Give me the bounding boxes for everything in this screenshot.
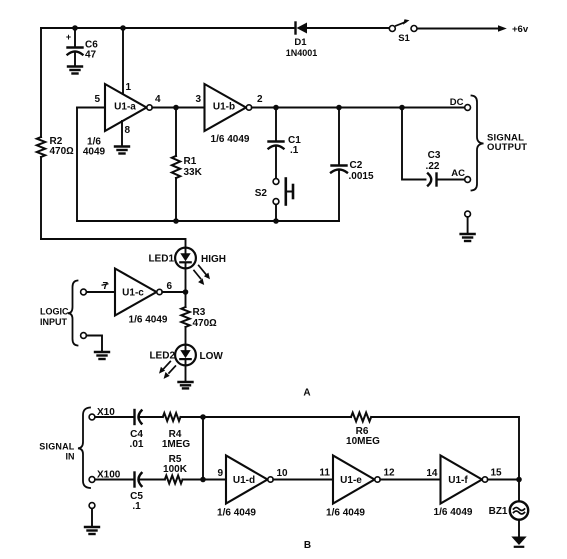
- svg-text:4: 4: [155, 94, 161, 105]
- terminal X10: [89, 414, 95, 420]
- svg-text:INPUT: INPUT: [40, 317, 68, 327]
- terminal ground input: [89, 503, 95, 509]
- wire R4 to R6: [181, 416, 352, 418]
- svg-text:.1: .1: [290, 145, 299, 156]
- svg-text:X10: X10: [97, 407, 115, 418]
- op-amp U1-d (inverter): [226, 456, 268, 504]
- buzzer BZ1: [510, 501, 528, 519]
- wire U1-f out to BZ1 node: [488, 479, 519, 481]
- node junction X10 row: [200, 414, 206, 420]
- resistor R2: [37, 137, 45, 157]
- svg-text:B: B: [304, 540, 311, 551]
- svg-text:+: +: [66, 32, 71, 42]
- wire R6 to right vertical: [371, 417, 519, 500]
- svg-text:2: 2: [257, 94, 263, 105]
- svg-text:1/6 4049: 1/6 4049: [217, 508, 256, 519]
- terminal ground output: [465, 211, 471, 217]
- svg-text:4049: 4049: [83, 147, 106, 158]
- svg-text:U1-d: U1-d: [233, 475, 255, 486]
- svg-text:1/6 4049: 1/6 4049: [326, 508, 365, 519]
- svg-text:S2: S2: [255, 188, 268, 199]
- svg-text:AC: AC: [451, 168, 465, 179]
- node junction pin1: [120, 25, 126, 31]
- op-amp U1-e (inverter): [333, 456, 375, 504]
- wire U1-e out to U1-f: [380, 479, 440, 481]
- op-amp U1-a (inverter): [105, 84, 147, 131]
- node bubble U1-c: [157, 289, 162, 294]
- svg-text:SIGNAL: SIGNAL: [39, 442, 75, 452]
- TEXT-MIDDLE: [40, 254, 311, 399]
- svg-text:1/6 4049: 1/6 4049: [211, 134, 250, 145]
- ground logic input: [95, 352, 109, 359]
- svg-text:5: 5: [94, 94, 100, 105]
- node bubble U1-f: [482, 477, 487, 482]
- LED LED1: [175, 248, 210, 292]
- wire U1-d out to U1-e: [273, 479, 333, 481]
- wire input1 to U1-c: [87, 291, 116, 293]
- node junction R1 bottom: [173, 218, 179, 224]
- wire X10 to C4: [95, 416, 134, 418]
- wire rail diode to S1: [307, 27, 390, 29]
- wire feedback left vertical: [76, 108, 78, 222]
- svg-text:470Ω: 470Ω: [193, 318, 218, 329]
- TEXT-TOP: [50, 24, 529, 199]
- svg-text:DC: DC: [450, 97, 464, 108]
- svg-text:10: 10: [277, 468, 289, 479]
- brace logic input: [68, 281, 78, 346]
- wire U1-c out: [162, 291, 185, 293]
- svg-text:1: 1: [126, 82, 132, 93]
- svg-text:LED1: LED1: [148, 254, 174, 265]
- svg-text:BZ1: BZ1: [489, 506, 508, 517]
- svg-text:U1-e: U1-e: [340, 475, 362, 486]
- svg-text:100K: 100K: [163, 464, 188, 475]
- resistor R3: [181, 307, 189, 327]
- wire top rail left: [41, 27, 294, 29]
- svg-text:6: 6: [167, 281, 173, 292]
- wire bottom outer to LED1: [41, 239, 186, 248]
- svg-text:1/6 4049: 1/6 4049: [129, 315, 168, 326]
- switch S2: [273, 179, 293, 222]
- terminal logic input 2: [81, 333, 87, 339]
- node bubble U1-e: [375, 477, 380, 482]
- node junction S2 bottom: [273, 218, 279, 224]
- svg-text:+6v: +6v: [512, 24, 529, 35]
- ground U1-a pin8: [115, 147, 129, 154]
- svg-text:R3: R3: [193, 307, 206, 318]
- svg-text:D1: D1: [294, 37, 307, 48]
- svg-text:A: A: [303, 388, 310, 399]
- capacitor C4: [135, 410, 163, 424]
- wire R1 verticals: [175, 108, 177, 222]
- wire pin 5 input: [77, 107, 105, 109]
- svg-text:11: 11: [319, 468, 330, 479]
- svg-text:14: 14: [426, 468, 438, 479]
- op-amp U1-f (inverter): [441, 456, 483, 504]
- svg-text:470Ω: 470Ω: [50, 146, 75, 157]
- wire ground input drop: [91, 509, 93, 527]
- svg-text:3: 3: [195, 94, 201, 105]
- wire AC branch: [402, 108, 426, 180]
- SECTION B: [78, 408, 528, 547]
- svg-text:33K: 33K: [184, 167, 203, 178]
- ground LED2: [179, 382, 193, 388]
- brace signal in: [78, 408, 90, 489]
- svg-text:LOW: LOW: [200, 351, 224, 362]
- node junction DC-AC split: [399, 105, 405, 111]
- node junction C2 top: [336, 105, 342, 111]
- svg-text:12: 12: [384, 468, 396, 479]
- node bubble U1-a: [147, 105, 152, 110]
- wire R3 verticals: [185, 292, 187, 345]
- terminal X100: [89, 477, 95, 483]
- wire R5 to U1-d: [183, 479, 227, 481]
- capacitor C3: [428, 174, 465, 186]
- wire pin 8 drop: [121, 121, 123, 146]
- resistor R6: [351, 413, 371, 422]
- svg-text:15: 15: [491, 468, 503, 479]
- svg-text:U1-c: U1-c: [122, 288, 144, 299]
- node bubble U1-b: [246, 105, 251, 110]
- SECTION MIDDLE: [68, 248, 210, 389]
- ground C6: [68, 67, 82, 74]
- svg-text:U1-a: U1-a: [114, 102, 136, 113]
- terminal DC: [465, 105, 471, 111]
- svg-text:OUTPUT: OUTPUT: [487, 142, 527, 153]
- wire left vertical R2 branch: [40, 28, 42, 239]
- svg-text:.1: .1: [132, 501, 141, 512]
- terminal logic input 1: [81, 289, 87, 295]
- wire X100 to C5: [95, 479, 134, 481]
- ground BZ1 arrow: [511, 537, 526, 546]
- op-amp U1-c (inverter): [115, 269, 157, 316]
- svg-text:U1-f: U1-f: [448, 475, 468, 486]
- svg-text:.22: .22: [426, 161, 440, 172]
- svg-text:1N4001: 1N4001: [286, 48, 318, 58]
- svg-text:47: 47: [85, 50, 97, 61]
- node junction C1 top: [273, 105, 279, 111]
- svg-text:.0015: .0015: [349, 171, 374, 182]
- wire S1 to +6v arrow: [417, 28, 498, 30]
- node junction pin6: [183, 289, 189, 295]
- svg-text:U1-b: U1-b: [213, 102, 235, 113]
- wire +6v arrowhead: [498, 25, 507, 31]
- svg-text:S1: S1: [398, 33, 410, 44]
- wire BZ1 to ground: [518, 520, 520, 537]
- wire bottom inner loop: [77, 220, 339, 222]
- op-amp U1-b (inverter): [205, 84, 247, 131]
- svg-text:X100: X100: [97, 470, 121, 481]
- ground input: [85, 527, 99, 534]
- LED LED2: [159, 345, 196, 382]
- svg-text:10MEG: 10MEG: [346, 436, 380, 447]
- svg-text:LOGIC: LOGIC: [40, 307, 69, 317]
- brace signal output: [472, 96, 484, 191]
- svg-text:1/6 4049: 1/6 4049: [434, 507, 473, 518]
- node junction BZ1: [516, 477, 522, 483]
- wire input2 to ground: [87, 336, 103, 352]
- svg-text:8: 8: [125, 125, 131, 136]
- svg-text:HIGH: HIGH: [201, 254, 226, 265]
- svg-text:R1: R1: [184, 156, 197, 167]
- svg-text:9: 9: [217, 468, 223, 479]
- svg-text:IN: IN: [66, 452, 75, 462]
- capacitor C5: [135, 473, 165, 487]
- capacitor C6: [68, 28, 83, 66]
- wire junction drop: [202, 417, 204, 480]
- resistor R4: [163, 413, 181, 421]
- node junction R1 top: [173, 105, 179, 111]
- svg-text:7: 7: [102, 281, 108, 292]
- wire pin 1 drop: [122, 28, 124, 94]
- node bubble U1-d: [268, 477, 273, 482]
- TEXT-B: [39, 407, 508, 551]
- svg-text:LED2: LED2: [149, 351, 175, 362]
- svg-text:C2: C2: [350, 160, 363, 171]
- svg-text:C3: C3: [428, 150, 441, 161]
- capacitor C2: [331, 108, 347, 222]
- capacitor C1: [269, 108, 284, 179]
- svg-text:.01: .01: [130, 439, 144, 450]
- switch S1: [389, 19, 417, 31]
- node junction X100 row: [200, 477, 206, 483]
- wire U1-b out to DC: [252, 107, 465, 109]
- ground output: [461, 234, 475, 241]
- svg-text:1MEG: 1MEG: [162, 439, 191, 450]
- resistor R1: [172, 156, 180, 178]
- resistor R5: [165, 476, 183, 484]
- node junction C6 top: [72, 25, 78, 31]
- diode D1: [296, 23, 308, 34]
- terminal AC: [465, 177, 471, 183]
- ground BZ1 bar: [515, 546, 523, 548]
- wire ground output drop: [467, 217, 469, 234]
- wire U1-a out to U1-b in: [152, 107, 204, 109]
